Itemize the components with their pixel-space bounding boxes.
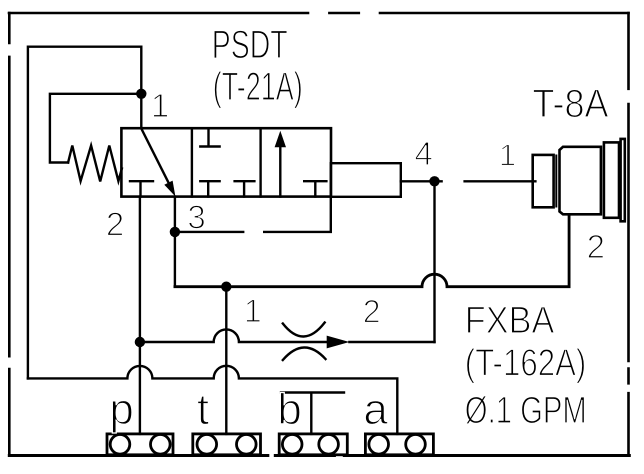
cartridge T-8A nose	[533, 155, 554, 207]
manifold dashed border top	[9, 12, 629, 15]
wire: left rail from port1 loop down to line C	[28, 47, 141, 379]
wire: node1 to spring anchor	[50, 94, 141, 163]
svg-text:2: 2	[363, 294, 381, 330]
orifice FXBA upper arc	[283, 323, 325, 337]
svg-text:1: 1	[151, 87, 169, 124]
port b symbol	[279, 434, 347, 455]
node on line B (port-p rail junction)	[135, 337, 145, 347]
node 1	[136, 89, 146, 99]
manifold dashed border left	[8, 13, 11, 455]
svg-text:PSDT: PSDT	[212, 23, 288, 67]
orifice FXBA lower arc	[283, 347, 326, 360]
valve PSDT body	[121, 128, 331, 196]
node on line A (tee to port t)	[221, 282, 231, 292]
wire line A: node3 branch to cartridge port 2	[175, 215, 569, 287]
wire line C: manifold rail to port a	[28, 366, 397, 434]
wire: T-8A port 2 down to line A	[568, 215, 570, 287]
wire: line A tee down to port t	[225, 287, 227, 434]
cartridge T-8A collar line	[555, 156, 557, 207]
valve cell3 blocked port symbol	[304, 181, 326, 196]
cartridge T-8A ring	[604, 142, 619, 217]
port t symbol	[193, 434, 261, 455]
wire: actuator to node 4 and on to cartridge	[401, 180, 536, 182]
flow arrow on line B	[327, 336, 350, 349]
node 4	[429, 176, 439, 186]
svg-text:3: 3	[187, 199, 205, 236]
port p symbol	[107, 434, 173, 455]
node 3	[170, 227, 180, 237]
svg-text:2: 2	[106, 206, 124, 243]
valve cell2 bottom blocked port symbol A	[200, 181, 219, 196]
svg-text:(T-162A): (T-162A)	[465, 343, 587, 385]
svg-text:1: 1	[499, 138, 516, 173]
cartridge T-8A back flange	[621, 139, 625, 221]
wire: node 4 down to line B	[433, 181, 435, 342]
svg-text:t: t	[197, 385, 209, 434]
svg-text:p: p	[109, 385, 133, 434]
wire line B: orifice line from port-p rail to node4 rail	[140, 329, 435, 342]
valve cell3 up arrow	[275, 131, 286, 197]
port b blocked bar	[281, 393, 344, 434]
valve cell1 diagonal arrow	[141, 129, 175, 197]
svg-text:4: 4	[415, 135, 433, 172]
wire: node 3 to valve right underside	[175, 197, 331, 232]
svg-text:Ø.1 GPM: Ø.1 GPM	[465, 390, 587, 432]
manifold dashed border right	[627, 13, 630, 456]
svg-text:2: 2	[587, 228, 605, 265]
valve pilot actuator box	[331, 163, 401, 197]
spring	[68, 146, 122, 182]
valve cell1 blocked port 2 symbol	[130, 181, 153, 196]
port a symbol	[365, 434, 433, 455]
manifold border bottom (solid)	[9, 454, 629, 457]
valve divider 2	[259, 128, 261, 196]
svg-text:a: a	[363, 385, 388, 434]
svg-text:(T-21A): (T-21A)	[213, 65, 303, 109]
valve cell2 top blocked port symbol	[200, 128, 219, 146]
svg-text:T-8A: T-8A	[533, 82, 609, 126]
svg-text:1: 1	[244, 293, 262, 329]
valve cell2 bottom blocked port symbol B	[235, 181, 255, 196]
valve divider 1	[191, 128, 193, 196]
wire: valve port 2 down to port p	[139, 197, 141, 434]
wire: valve port 3 stub	[174, 197, 176, 232]
cartridge T-8A body	[560, 147, 601, 215]
svg-text:FXBA: FXBA	[465, 300, 555, 342]
svg-text:b: b	[277, 385, 301, 434]
wire: node 3 down to line A	[174, 232, 176, 287]
